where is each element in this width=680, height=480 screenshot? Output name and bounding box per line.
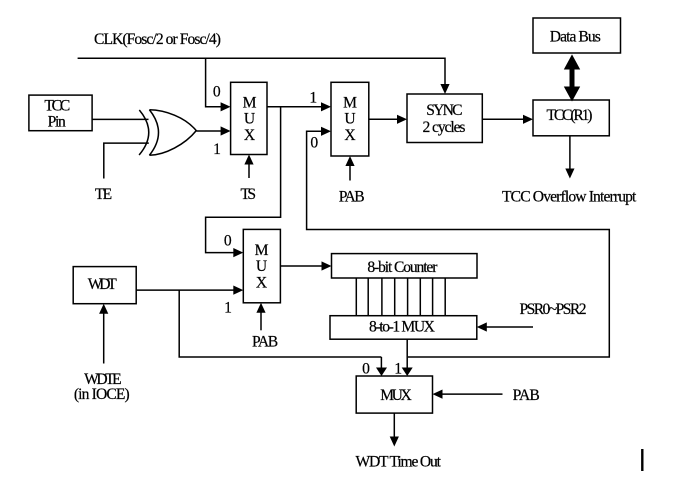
- svg-text:Data Bus: Data Bus: [550, 28, 601, 45]
- svg-text:0: 0: [310, 135, 318, 152]
- svg-text:0: 0: [224, 232, 232, 249]
- svg-text:1: 1: [394, 361, 402, 378]
- svg-text:SYNC: SYNC: [426, 102, 462, 119]
- svg-text:U: U: [244, 111, 255, 128]
- svg-text:M: M: [255, 242, 269, 259]
- svg-text:CLK(Fosc/2 or Fosc/4): CLK(Fosc/2 or Fosc/4): [94, 31, 221, 48]
- svg-text:X: X: [344, 127, 355, 144]
- svg-text:TCC: TCC: [44, 97, 70, 114]
- svg-text:1: 1: [309, 90, 317, 107]
- svg-text:PAB: PAB: [252, 334, 278, 351]
- svg-text:X: X: [256, 275, 267, 292]
- svg-text:2 cycles: 2 cycles: [423, 119, 466, 136]
- svg-text:0: 0: [362, 361, 370, 378]
- svg-text:U: U: [344, 111, 355, 128]
- svg-text:PAB: PAB: [339, 189, 365, 206]
- svg-text:U: U: [256, 258, 267, 275]
- svg-text:M: M: [243, 95, 257, 112]
- svg-text:(in IOCE): (in IOCE): [74, 386, 130, 403]
- svg-text:TS: TS: [241, 186, 257, 203]
- svg-text:TE: TE: [95, 186, 112, 203]
- svg-text:TCC Overflow Interrupt: TCC Overflow Interrupt: [502, 189, 637, 206]
- svg-text:1: 1: [213, 141, 221, 158]
- svg-text:8-bit Counter: 8-bit Counter: [367, 259, 438, 276]
- svg-text:Pin: Pin: [48, 113, 66, 130]
- svg-text:MUX: MUX: [380, 387, 412, 404]
- svg-text:TCC(R1): TCC(R1): [547, 107, 593, 124]
- svg-text:PSR0~PSR2: PSR0~PSR2: [520, 301, 587, 318]
- svg-text:WDT: WDT: [88, 276, 117, 293]
- svg-text:PAB: PAB: [513, 387, 540, 404]
- svg-text:1: 1: [224, 300, 232, 317]
- svg-text:8-to-1 MUX: 8-to-1 MUX: [369, 319, 435, 336]
- svg-text:X: X: [244, 127, 255, 144]
- svg-text:0: 0: [213, 83, 221, 100]
- svg-text:M: M: [343, 95, 357, 112]
- svg-text:WDT Time Out: WDT Time Out: [355, 454, 441, 471]
